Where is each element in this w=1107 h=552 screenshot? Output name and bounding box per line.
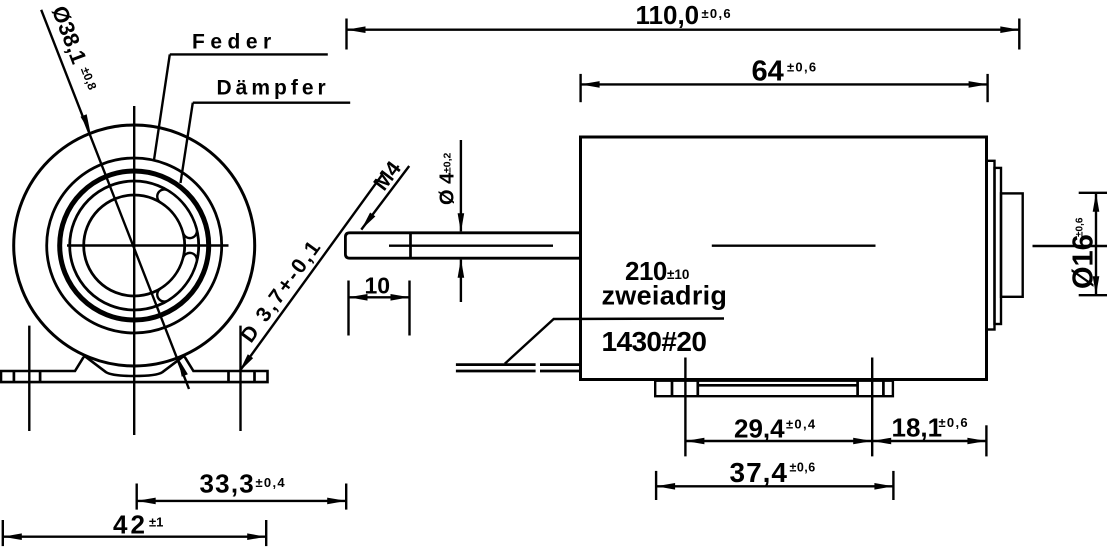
svg-text:±0,6: ±0,6 xyxy=(702,6,732,21)
dimension Ø16 xyxy=(1068,193,1107,295)
rear plunger Ø16 xyxy=(1001,193,1023,296)
svg-text:10: 10 xyxy=(365,273,391,299)
svg-text:D 3,7+-0,1: D 3,7+-0,1 xyxy=(236,235,326,347)
svg-text:18,1: 18,1 xyxy=(892,413,943,443)
dimension Ø4 xyxy=(437,140,465,302)
svg-text:±0,4: ±0,4 xyxy=(256,475,286,490)
rod centerline xyxy=(389,244,553,246)
svg-text:29,4: 29,4 xyxy=(734,414,785,444)
svg-text:±0,2: ±0,2 xyxy=(442,152,454,173)
dimension 29,4 xyxy=(685,358,872,457)
svg-text:M4: M4 xyxy=(369,157,406,195)
circle ring R87 xyxy=(47,158,222,333)
label Daempfer xyxy=(181,77,351,184)
svg-text:±0,4: ±0,4 xyxy=(786,417,816,432)
svg-text:Feder: Feder xyxy=(192,31,277,54)
dimension 10 xyxy=(349,273,410,336)
circle R64.5 xyxy=(70,181,199,310)
Feder ring (thick circle) xyxy=(60,171,209,320)
front view group xyxy=(1,106,268,435)
dimension 18,1 xyxy=(872,413,986,457)
svg-text:Ø16: Ø16 xyxy=(1068,234,1100,289)
svg-text:110,0: 110,0 xyxy=(636,0,700,30)
dimension 42 xyxy=(3,510,266,547)
mounting plate xyxy=(655,381,893,397)
horizontal centerline xyxy=(67,244,229,246)
bore circle R50.5 xyxy=(84,195,185,296)
thread end line xyxy=(409,233,412,258)
dimension 37,4 xyxy=(656,457,893,500)
svg-text:±0,6: ±0,6 xyxy=(790,461,816,475)
wires (zweiadrig) xyxy=(456,363,536,366)
side view group xyxy=(345,137,1107,396)
svg-text:±0,6: ±0,6 xyxy=(787,60,817,75)
leader D 3,7 xyxy=(236,175,382,374)
solenoid body rectangle xyxy=(581,137,987,380)
outer circle (housing Ø38,1) xyxy=(14,125,255,366)
svg-text:37,4: 37,4 xyxy=(730,457,789,488)
svg-text:33,3: 33,3 xyxy=(200,469,255,499)
svg-text:Ø38,1: Ø38,1 xyxy=(47,2,92,67)
right centerline dash xyxy=(1033,245,1107,247)
left hole centerline xyxy=(28,326,30,431)
right hole centerline xyxy=(239,326,241,431)
body centerline dash xyxy=(712,244,876,246)
text Ø38,1 ±0,8 xyxy=(47,2,102,95)
foot slot lines xyxy=(13,371,16,382)
mounting foot outline xyxy=(1,357,268,382)
text 210 xyxy=(602,256,728,357)
svg-text:42: 42 xyxy=(113,510,148,540)
leader to wires xyxy=(505,319,724,364)
dimension 33,3 xyxy=(137,469,347,510)
flange layer 1 xyxy=(987,161,995,330)
dimension 110,0 xyxy=(347,0,1020,50)
label M4 xyxy=(359,157,410,232)
dimension 64 xyxy=(581,56,988,103)
svg-text:1430#20: 1430#20 xyxy=(602,326,707,357)
svg-text:±0,6: ±0,6 xyxy=(1075,217,1086,237)
flange layer 2 xyxy=(995,168,1002,324)
plunger rod xyxy=(345,233,580,258)
svg-text:±0,8: ±0,8 xyxy=(78,65,100,92)
svg-text:zweiadrig: zweiadrig xyxy=(602,281,728,311)
damper bump lower xyxy=(164,260,190,295)
damper bump upper xyxy=(164,196,190,231)
svg-text:Ø 4: Ø 4 xyxy=(437,172,459,205)
svg-text:±0,6: ±0,6 xyxy=(939,415,969,430)
svg-text:±1: ±1 xyxy=(149,515,163,530)
dimension Ø38,1 diagonal xyxy=(41,10,189,389)
vertical centerline xyxy=(133,106,135,435)
svg-text:Dämpfer: Dämpfer xyxy=(217,77,330,100)
label Feder xyxy=(154,31,328,161)
svg-text:64: 64 xyxy=(752,56,784,88)
